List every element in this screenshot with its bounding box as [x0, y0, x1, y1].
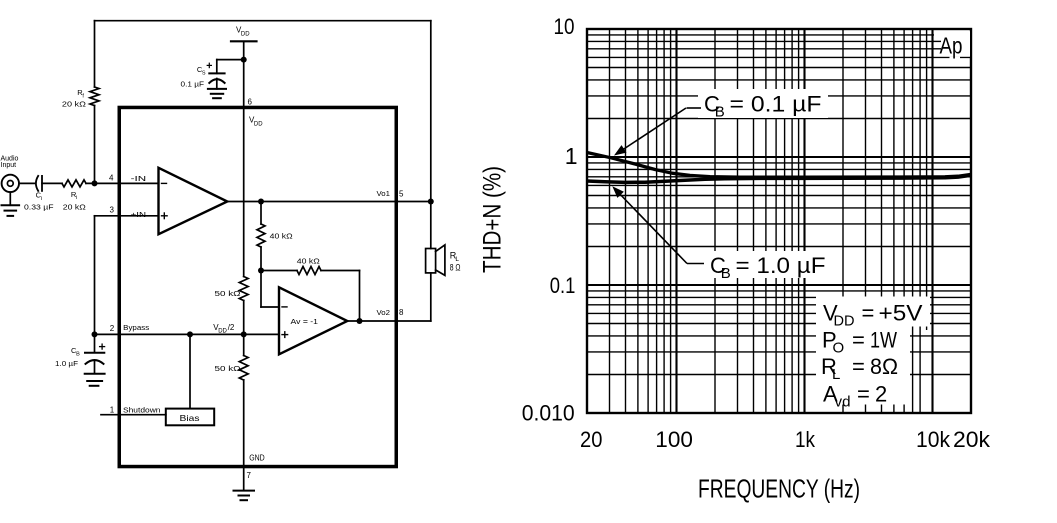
svg-text:L: L	[832, 366, 840, 383]
svg-text:50 kΩ: 50 kΩ	[215, 289, 241, 298]
svg-text:Shutdown: Shutdown	[123, 406, 161, 415]
svg-text:THD+N (%): THD+N (%)	[479, 166, 507, 273]
svg-text:-IN: -IN	[131, 174, 147, 183]
svg-text:+5V: +5V	[879, 301, 923, 326]
svg-text:40 kΩ: 40 kΩ	[297, 257, 320, 266]
svg-text:50 kΩ: 50 kΩ	[215, 364, 241, 373]
svg-text:Vo2: Vo2	[377, 308, 391, 317]
svg-text:= 1.0 µF: = 1.0 µF	[736, 253, 826, 278]
svg-text:2: 2	[110, 324, 115, 333]
svg-text:0.1: 0.1	[550, 273, 576, 298]
svg-text:6: 6	[248, 98, 253, 107]
svg-text:=: =	[857, 382, 870, 407]
svg-text:1W: 1W	[870, 328, 897, 353]
svg-text:B: B	[715, 104, 725, 121]
svg-text:FREQUENCY (Hz): FREQUENCY (Hz)	[698, 474, 860, 504]
svg-text:= 0.1 µF: = 0.1 µF	[730, 92, 822, 117]
svg-text:Av = -1: Av = -1	[291, 317, 319, 326]
svg-text:1: 1	[565, 143, 578, 169]
svg-text:1: 1	[110, 405, 115, 414]
svg-text:DD: DD	[241, 31, 250, 37]
svg-text:/2: /2	[228, 323, 235, 332]
svg-text:vd: vd	[835, 394, 851, 411]
svg-text:Bias: Bias	[180, 413, 200, 423]
svg-text:1.0 µF: 1.0 µF	[55, 359, 78, 368]
svg-text:Vo1: Vo1	[377, 189, 391, 198]
svg-text:0.010: 0.010	[522, 400, 575, 425]
svg-text:i: i	[41, 196, 42, 202]
svg-text:7: 7	[247, 471, 252, 480]
svg-text:Input: Input	[1, 162, 17, 169]
svg-text:10: 10	[554, 14, 575, 39]
svg-text:0.1 µF: 0.1 µF	[181, 80, 205, 89]
svg-text:DD: DD	[254, 121, 263, 127]
svg-text:GND: GND	[249, 453, 265, 462]
svg-text:=: =	[852, 354, 865, 379]
svg-text:B: B	[721, 265, 731, 282]
svg-text:20 kΩ: 20 kΩ	[63, 203, 86, 212]
svg-text:Bypass: Bypass	[123, 323, 149, 332]
svg-text:20: 20	[580, 427, 602, 452]
svg-text:20 kΩ: 20 kΩ	[62, 99, 86, 108]
svg-text:2: 2	[875, 382, 887, 407]
svg-text:B: B	[76, 351, 80, 357]
svg-text:3: 3	[110, 205, 115, 214]
svg-text:1k: 1k	[795, 427, 816, 452]
svg-text:10k: 10k	[916, 427, 951, 452]
svg-text:=: =	[852, 328, 865, 353]
svg-text:8Ω: 8Ω	[870, 354, 898, 379]
svg-text:S: S	[202, 71, 206, 77]
svg-text:Ap: Ap	[940, 33, 963, 59]
svg-text:8: 8	[399, 308, 404, 317]
svg-text:4: 4	[109, 174, 114, 183]
svg-text:=: =	[862, 301, 875, 326]
svg-text:DD: DD	[218, 329, 227, 335]
svg-text:40 kΩ: 40 kΩ	[270, 232, 293, 241]
svg-text:+IN: +IN	[131, 210, 147, 219]
svg-text:i: i	[76, 195, 77, 201]
svg-text:8 Ω: 8 Ω	[450, 262, 461, 272]
svg-text:0.33 µF: 0.33 µF	[24, 203, 54, 212]
svg-text:5: 5	[399, 190, 404, 199]
svg-text:20k: 20k	[953, 427, 991, 452]
svg-text:100: 100	[655, 427, 693, 452]
